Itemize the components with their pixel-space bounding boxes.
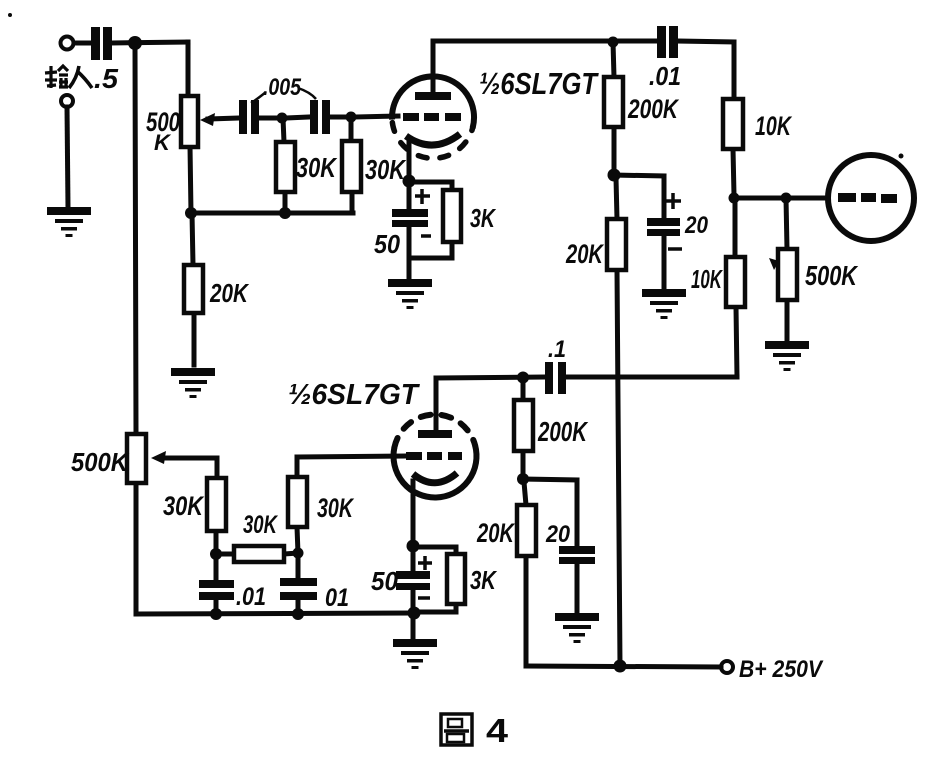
svg-text:10K: 10K [691, 264, 723, 294]
svg-text:.5: .5 [94, 63, 118, 94]
svg-text:.01: .01 [649, 61, 681, 91]
svg-text:½6SL7GT: ½6SL7GT [288, 379, 420, 411]
svg-text:½6SL7GT: ½6SL7GT [479, 66, 600, 101]
svg-text:20: 20 [545, 521, 570, 548]
svg-text:4: 4 [486, 712, 509, 749]
svg-text:20K: 20K [476, 518, 516, 548]
svg-text:30K: 30K [243, 511, 278, 539]
svg-text:3K: 3K [470, 203, 497, 233]
svg-text:200K: 200K [537, 416, 588, 447]
svg-text:20K: 20K [209, 278, 250, 308]
svg-text:10K: 10K [755, 111, 793, 141]
svg-text:20: 20 [684, 212, 708, 239]
svg-text:50: 50 [371, 566, 399, 596]
svg-text:.01: .01 [236, 583, 266, 611]
svg-text:3K: 3K [470, 565, 498, 595]
svg-text:30K: 30K [317, 493, 355, 523]
svg-text:01: 01 [325, 584, 349, 612]
svg-text:500K: 500K [805, 260, 858, 291]
svg-text:50: 50 [374, 229, 400, 259]
svg-text:30K: 30K [296, 152, 337, 183]
svg-text:200K: 200K [627, 94, 680, 124]
svg-text:30K: 30K [365, 154, 406, 185]
svg-text:30K: 30K [163, 491, 205, 521]
svg-text:.005: .005 [263, 74, 302, 101]
svg-text:B+ 250V: B+ 250V [739, 656, 824, 683]
svg-text:K: K [154, 130, 172, 155]
svg-text:.1: .1 [548, 336, 566, 363]
svg-text:500K: 500K [71, 447, 130, 477]
svg-text:20K: 20K [565, 239, 605, 269]
